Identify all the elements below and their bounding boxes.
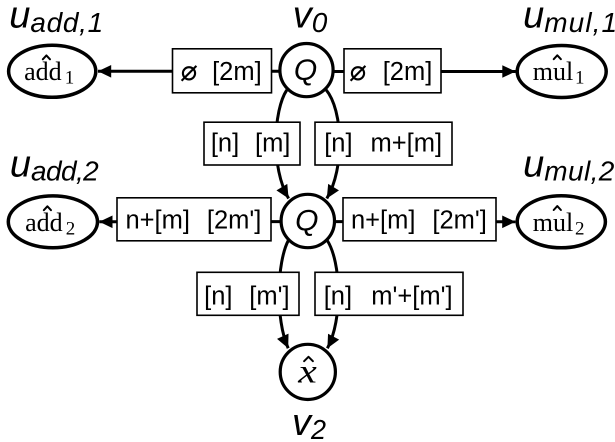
svg-text:[n]: [n] [211, 130, 239, 158]
svg-text:[2m]: [2m] [383, 58, 433, 86]
svg-text:[n]: [n] [324, 130, 352, 158]
svg-text:1: 1 [65, 68, 75, 89]
svg-text:v0: v0 [293, 0, 328, 38]
svg-text:n+[m]: n+[m] [125, 206, 190, 234]
svg-text:uadd,1: uadd,1 [9, 0, 104, 38]
svg-text:Q: Q [295, 205, 318, 238]
svg-text:umul,1: umul,1 [523, 0, 615, 38]
svg-text:2: 2 [66, 218, 76, 239]
svg-text:mul: mul [533, 208, 573, 237]
svg-text:mul: mul [533, 57, 573, 86]
svg-text:n+[m]: n+[m] [351, 206, 416, 234]
svg-text:x: x [297, 353, 317, 391]
svg-text:add: add [24, 57, 62, 86]
svg-text:[n]: [n] [324, 282, 352, 310]
svg-text:[n]: [n] [204, 282, 232, 310]
svg-text:umul,2: umul,2 [523, 143, 615, 186]
svg-text:m+[m]: m+[m] [371, 130, 443, 158]
svg-text:[2m]: [2m] [212, 58, 262, 86]
svg-text:[m]: [m] [255, 130, 290, 158]
svg-text:2: 2 [575, 218, 585, 239]
svg-text:v2: v2 [292, 402, 326, 442]
svg-text:Q: Q [294, 54, 317, 87]
svg-text:uadd,2: uadd,2 [10, 143, 99, 186]
svg-text:m'+[m']: m'+[m'] [371, 282, 452, 310]
svg-text:[m']: [m'] [249, 282, 289, 310]
svg-text:[2m']: [2m'] [207, 206, 261, 234]
svg-text:1: 1 [575, 67, 585, 88]
svg-text:[2m']: [2m'] [432, 206, 486, 234]
svg-text:add: add [25, 208, 63, 237]
